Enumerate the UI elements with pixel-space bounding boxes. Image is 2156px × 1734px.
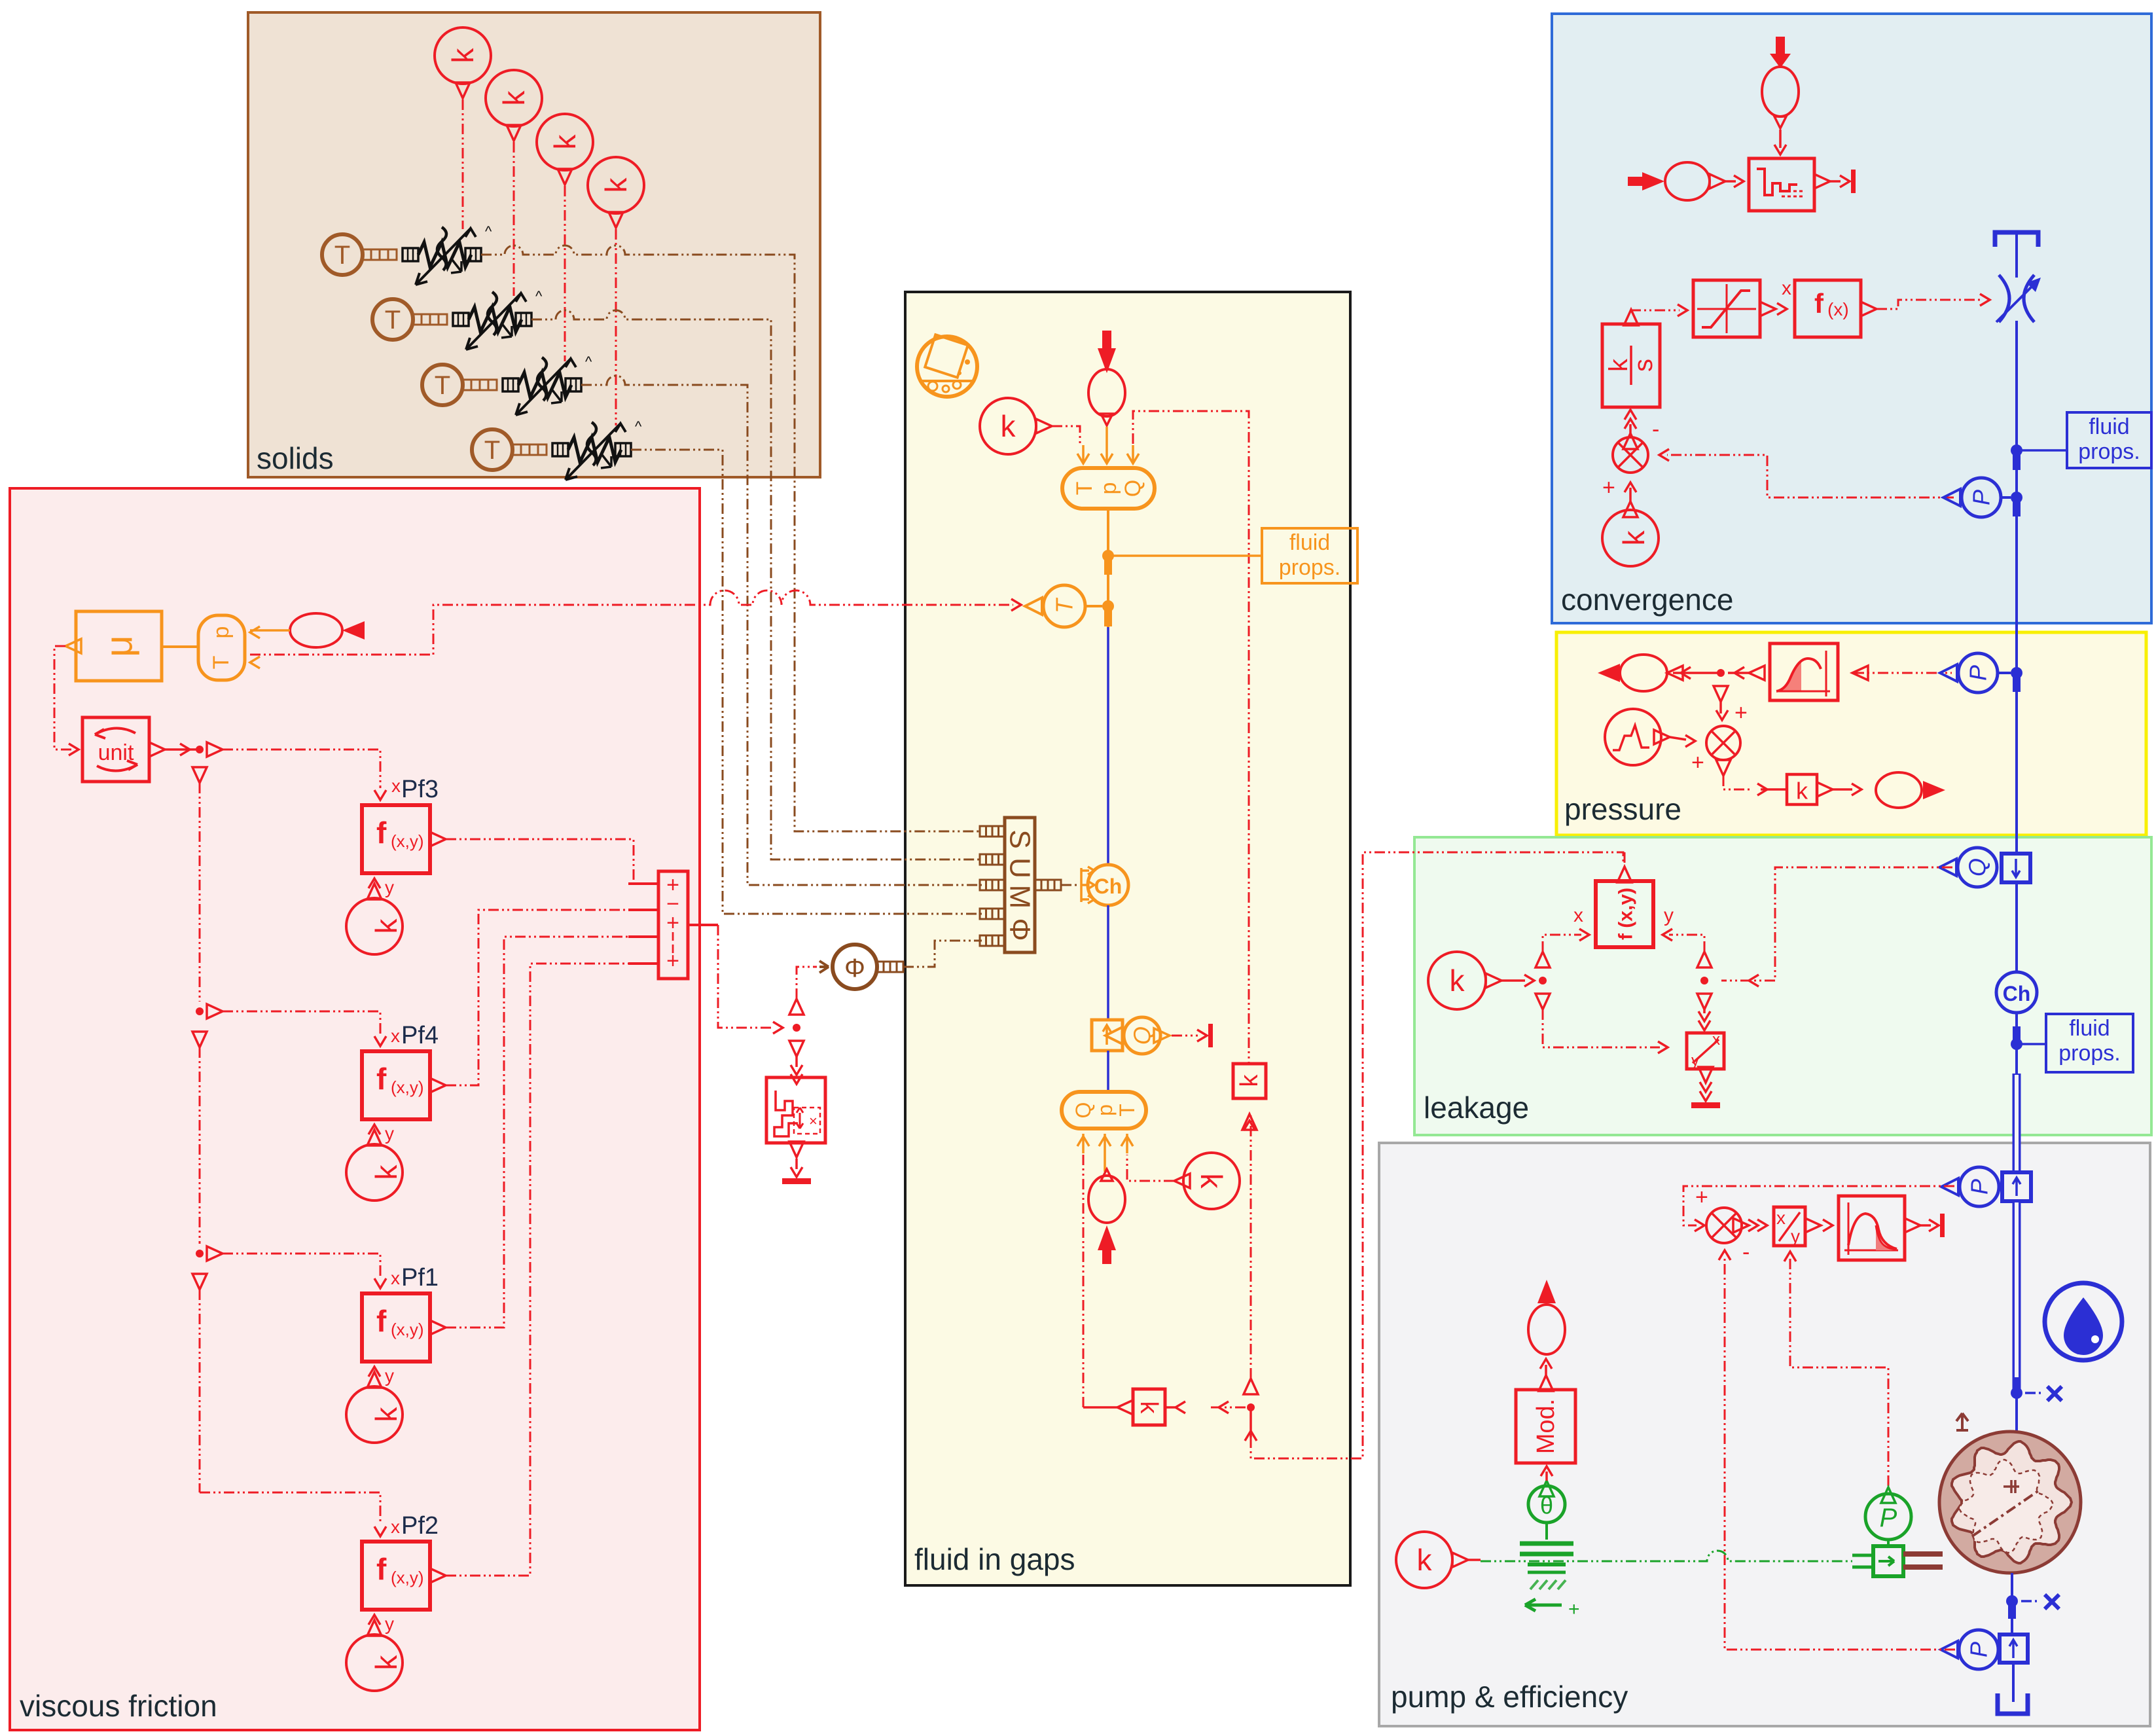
gain square k (vertical) [1233, 1064, 1266, 1130]
svg-text:x: x [1573, 905, 1583, 926]
thermal resistor R1 [403, 223, 492, 285]
svg-text:convergence: convergence [1561, 583, 1733, 617]
blue thermal-fluid line down to Ch [1107, 627, 1109, 865]
wire R1 output to SUM input 1 [481, 245, 982, 831]
svg-text:k: k [1417, 1543, 1433, 1577]
pressure source ellipse bottom [1088, 1169, 1125, 1264]
svg-text:Ch: Ch [1094, 875, 1123, 898]
wire k4 to thermal resistor R4 [615, 229, 617, 425]
signal output ellipse (pressure right) [1876, 772, 1945, 808]
svg-text:k: k [1195, 1174, 1229, 1189]
svg-text:-: - [1742, 1240, 1750, 1265]
constant k (fluid in gaps top) [980, 398, 1036, 454]
svg-text:x: x [391, 1026, 400, 1046]
region box: viscous friction [10, 488, 700, 1730]
svg-text:T: T [1072, 482, 1097, 496]
svg-text:(x,y): (x,y) [391, 1568, 424, 1587]
svg-text:P: P [1965, 665, 1992, 681]
constant source k4 (solids) [588, 157, 644, 213]
svg-text:props.: props. [2078, 439, 2140, 464]
orifice box with up arrow (orange) [1092, 1020, 1123, 1051]
wire Phi to SUM input 5 [903, 941, 982, 967]
svg-text:(x): (x) [1827, 299, 1849, 319]
svg-text:Pf2: Pf2 [401, 1512, 439, 1540]
variable orifice (convergence) [1996, 275, 2041, 322]
pressure sensor P (convergence) [1943, 478, 2001, 517]
signal sink ellipse top (convergence) [1762, 37, 1799, 154]
svg-text:T: T [209, 656, 234, 670]
wire saturation to f(x) [1777, 278, 1791, 315]
svg-text:k: k [1001, 409, 1016, 443]
svg-text:^: ^ [585, 353, 592, 370]
wire junction up to Phi source [797, 967, 817, 999]
svg-text:x: x [391, 776, 401, 796]
wire distribution to terminator (pump) [1920, 1214, 1945, 1237]
svg-text:P: P [1966, 1642, 1992, 1657]
svg-text:f: f [1814, 288, 1824, 319]
wire distribution to ellipse with tee [1673, 666, 1765, 702]
constant source k3 (solids) [537, 114, 593, 170]
wire k to Pf3 y input [367, 877, 394, 899]
wire division to ground (leakage) [1691, 1082, 1720, 1108]
junction T sensor [1085, 600, 1114, 626]
signal generator circle (pressure) [1605, 709, 1670, 765]
wire junction down to step box [791, 1057, 802, 1084]
label: solids [257, 441, 334, 475]
wire k to Pf2 y input [367, 1614, 394, 1636]
svg-text:k: k [548, 134, 582, 150]
label: fluid in gaps [914, 1542, 1075, 1576]
svg-text:T: T [385, 306, 401, 334]
integrator k/s box [1602, 310, 1660, 407]
svg-text:fluid: fluid [1289, 530, 1330, 555]
svg-text:Q: Q [1071, 1102, 1095, 1119]
svg-text:+: + [666, 948, 679, 973]
wire unit output junction tee [165, 742, 223, 783]
wire x/y bottom input from green P sensor [1784, 1252, 1888, 1486]
angle sensor theta (green) [1528, 1481, 1565, 1540]
tank top (convergence) [1995, 232, 2038, 278]
gain circle k of Pf2 [346, 1635, 403, 1691]
tag of k1 [456, 82, 470, 98]
wire junction chain down 3 [199, 1290, 201, 1492]
svg-text:props.: props. [1279, 555, 1341, 580]
svg-text:Ch: Ch [2003, 982, 2031, 1005]
region box: convergence [1552, 14, 2151, 623]
svg-text:y: y [385, 1614, 394, 1634]
svg-text:+: + [1691, 750, 1704, 775]
svg-text:T: T [1115, 1104, 1139, 1117]
wire k square output left [1083, 1406, 1117, 1409]
svg-text:x: x [1776, 1208, 1786, 1228]
junction P conv [2001, 492, 2022, 516]
region box: solids [248, 12, 820, 477]
region box: leakage [1414, 837, 2151, 1135]
blue line Ch to orifice [1107, 905, 1109, 1020]
function block Pf1 f(x,y) [362, 1264, 446, 1362]
svg-text:P: P [1966, 1179, 1993, 1195]
signal sink ellipse (pressure left) [1598, 655, 1683, 691]
arrows into pill2 bottom [1077, 1134, 1133, 1172]
svg-text:k: k [1796, 778, 1808, 804]
svg-text:leakage: leakage [1424, 1091, 1529, 1125]
svg-text:k: k [497, 90, 531, 106]
wire P sensor to multiplier input [1659, 449, 1954, 497]
multiplier circle (convergence) [1602, 410, 1659, 500]
sensor T (fluid in gaps) [1025, 585, 1085, 627]
pressure sensor P + port (pump top) [1941, 1167, 2031, 1206]
thermal resistor R4 [552, 418, 642, 480]
thermal resistor R2 [453, 288, 543, 350]
svg-text:Pf3: Pf3 [401, 776, 439, 803]
svg-text:k: k [369, 1165, 403, 1180]
junction + fluid props (convergence) [2011, 444, 2067, 470]
svg-text:Q: Q [1129, 1026, 1156, 1045]
pressure sensor P (pressure box) [1940, 653, 1998, 693]
wire P sensor to distribution box [1854, 672, 1952, 674]
thermal resistor R3 [503, 353, 592, 415]
svg-text:P: P [1968, 490, 1995, 505]
pressure sensor P + port (pump bottom) [1941, 1630, 2028, 1669]
svg-text:+: + [1602, 475, 1615, 500]
signal source ellipse left (convergence) [1628, 162, 1725, 200]
division x/y box (pump) [1774, 1207, 1821, 1246]
constant k (pump) [1396, 1532, 1452, 1588]
svg-text:p: p [209, 626, 234, 639]
wire y input from junction2 [1662, 905, 1704, 952]
wire summer output to junction [718, 925, 804, 1057]
function block Pf2 f(x,y) [362, 1512, 446, 1610]
SUM Phi block [980, 818, 1036, 952]
unit converter block [82, 717, 165, 782]
flow sensor Q (fluid in gaps) [1105, 1017, 1160, 1054]
wire R3 output to SUM input 3 [581, 376, 982, 885]
property pill QpT (bottom) [1062, 1092, 1146, 1129]
svg-text:^: ^ [635, 418, 642, 435]
svg-text:μ: μ [98, 635, 141, 657]
svg-text:p: p [1093, 1104, 1117, 1116]
thermal node Ch (leakage) [1996, 972, 2037, 1013]
wire Pf2 output to summer input 4 [446, 964, 628, 1576]
viscosity block mu [65, 611, 162, 681]
blue line junction to bottom sensor [2011, 1601, 2013, 1635]
svg-text:k: k [1617, 530, 1651, 546]
heat exchange node Ch (orange) [1088, 865, 1128, 905]
svg-text:x: x [391, 1517, 400, 1537]
wire P top to multiplier + input [1683, 1186, 1954, 1231]
wire Pf1 output to summer input 3 [446, 937, 628, 1328]
wire f(x) to variable orifice [1877, 294, 1990, 309]
gain k box (pressure) [1787, 774, 1833, 804]
multiplier circle (pump efficiency) [1695, 1185, 1750, 1265]
oil droplet icon [2045, 1283, 2122, 1360]
svg-text:f: f [376, 1304, 387, 1338]
fluid props box (convergence) [2067, 412, 2151, 468]
tag of k4 [609, 212, 623, 228]
svg-text:x: x [391, 1268, 400, 1288]
blue line through pressure box [2015, 673, 2018, 854]
property pill QpT (top) [1062, 468, 1155, 509]
svg-text:+: + [1695, 1185, 1708, 1210]
svg-text:p: p [1096, 482, 1121, 495]
wire multiplier to x/y box [1748, 1219, 1767, 1231]
tank bottom (pump) [1998, 1663, 2028, 1714]
constant k (fluid bottom) [1183, 1153, 1240, 1209]
tag of k2 [507, 125, 521, 141]
svg-text:y: y [385, 1365, 394, 1386]
svg-text:k: k [599, 177, 633, 193]
svg-text:M: M [1004, 885, 1036, 909]
wire to Pf3 x input [223, 750, 401, 800]
distribution box (pump) [1839, 1196, 1920, 1260]
pressure source ellipse top (fluid in gaps) [1088, 331, 1125, 425]
svg-text:k: k [446, 48, 480, 63]
orange arrows into QpT pill [1077, 427, 1139, 463]
wire step box to ground [782, 1142, 811, 1184]
svg-text:k: k [369, 918, 403, 934]
wire k to Pf4 y input [367, 1123, 394, 1146]
svg-text:Q: Q [1121, 480, 1145, 497]
svg-text:f: f [376, 816, 387, 850]
signal ellipse above Mod [1528, 1280, 1565, 1354]
wire k to output ellipse (pressure) [1833, 784, 1861, 795]
wire k/s to saturation [1631, 304, 1687, 316]
signal shaping step box [766, 1077, 825, 1143]
junction bottom right (fluid) [1244, 1379, 1258, 1441]
wire k3 to thermal resistor R3 [564, 186, 566, 361]
stair signal box (convergence) [1749, 158, 1830, 211]
double pipe leakage to pump box [2013, 1074, 2021, 1174]
wire stair box to terminator [1830, 170, 1856, 193]
constant source k2 (solids) [486, 70, 542, 126]
svg-text:pump & efficiency: pump & efficiency [1391, 1680, 1628, 1714]
wire k to multiplier [1623, 482, 1638, 517]
svg-text:y: y [385, 1123, 394, 1144]
junction with plug x (pump top) [2011, 1377, 2062, 1401]
wire junction down and right to leakage [1251, 852, 1623, 1458]
gain circle k of Pf4 [346, 1144, 403, 1201]
svg-text:k: k [1236, 1074, 1263, 1087]
blue line pump bottom to junction [2011, 1573, 2013, 1600]
wire R4 output to SUM input 4 [631, 450, 982, 914]
wire junction1 down to division box [1543, 1009, 1668, 1053]
temperature source T2 [372, 299, 447, 340]
wire junction to k square input [1165, 1401, 1247, 1413]
constant k (leakage) [1428, 952, 1486, 1009]
wire Q sensor to junction 2 (leakage) [1721, 867, 1952, 986]
svg-text:f (x,y): f (x,y) [1615, 888, 1637, 940]
distribution function box (pressure) [1770, 643, 1868, 700]
wire junction chain down [192, 783, 223, 1047]
blue line orifice to pill2 [1107, 1051, 1109, 1092]
label: leakage [1424, 1091, 1529, 1125]
svg-text:f: f [376, 1552, 387, 1586]
svg-text:(x,y): (x,y) [391, 1320, 424, 1339]
multiplier circle (pressure) [1706, 726, 1740, 776]
wire leakage f top to incoming long line [1624, 852, 1626, 867]
svg-text:^: ^ [485, 223, 492, 240]
svg-text:x: x [1782, 278, 1791, 299]
blue line junction to pump [2015, 1393, 2018, 1434]
svg-text:y: y [1791, 1226, 1800, 1246]
orange line pill down / junction to fluid props [1102, 509, 1262, 627]
svg-text:×: × [809, 1113, 817, 1129]
label: viscous friction [20, 1689, 217, 1723]
rotary load to ground (green) [1520, 1544, 1580, 1620]
svg-text:-: - [1652, 417, 1659, 442]
svg-text:(x,y): (x,y) [391, 831, 424, 851]
gain square k (horizontal) [1117, 1389, 1165, 1425]
svg-text:(x,y): (x,y) [391, 1077, 424, 1097]
summer block [628, 871, 718, 979]
svg-text:Φ: Φ [844, 954, 865, 983]
flow source Phi [819, 945, 903, 989]
region box: fluid in gaps [905, 292, 1350, 1585]
label: convergence [1561, 583, 1733, 617]
svg-text:viscous friction: viscous friction [20, 1689, 217, 1723]
svg-text:k: k [369, 1407, 403, 1422]
temperature source T4 [472, 429, 547, 470]
wire signal gen to multiplier [1670, 735, 1704, 775]
fluid props box (leakage) [2046, 1014, 2133, 1072]
wire Mod to output ellipse [1540, 1359, 1552, 1375]
svg-text:y: y [1664, 905, 1674, 926]
wire x/y to distribution box (pump) [1823, 1219, 1833, 1231]
wire Pf3 output to summer input 1 [446, 839, 634, 884]
wire tee down to multiplier (pressure) [1716, 700, 1748, 725]
tag of k3 [558, 169, 572, 185]
wire Pf4 output to summer input 2 [446, 910, 628, 1085]
svg-text:x: x [1712, 1031, 1720, 1049]
wire k to pill2 right input [1127, 1155, 1190, 1188]
wire Q sensor to terminator [1154, 1024, 1213, 1047]
svg-text:k: k [1450, 964, 1465, 998]
svg-text:solids: solids [257, 441, 334, 475]
wire into step/stair box [1725, 175, 1744, 187]
svg-text:+: + [1734, 700, 1748, 725]
svg-text:k: k [369, 1655, 403, 1671]
svg-text:props.: props. [2058, 1041, 2121, 1066]
svg-text:f: f [376, 1062, 387, 1096]
pT property pill [162, 615, 260, 680]
wire k to Pf1 y input [367, 1365, 394, 1388]
svg-text:S: S [1004, 829, 1036, 848]
svg-text:T: T [334, 241, 350, 270]
svg-text:Q: Q [1964, 858, 1991, 876]
wire multiplier to k gain (pressure) [1723, 776, 1787, 795]
saturation box [1693, 280, 1776, 337]
wire to Pf4 x input [223, 1011, 400, 1046]
wire junction2 down to division box [1698, 1009, 1710, 1030]
wire from right k-square chain to pill right input [1133, 411, 1249, 1064]
double pipe sensor to pump junction [2013, 1201, 2021, 1393]
blue line into Ch (leakage) [2015, 882, 2018, 972]
wire k to junction1 (leakage) [1486, 952, 1550, 1009]
svg-text:fluid in gaps: fluid in gaps [914, 1542, 1075, 1576]
junction with plug x (pump bottom) [2006, 1595, 2059, 1619]
function f(x) box [1795, 280, 1877, 337]
division box x/y (leakage) [1687, 1031, 1724, 1083]
wire theta to Mod box [1541, 1466, 1553, 1481]
svg-text:k: k [1135, 1401, 1162, 1415]
constant k (convergence) [1602, 510, 1659, 566]
constant source k1 (solids) [435, 27, 491, 84]
wire junction up to k square vertical [1244, 1114, 1255, 1379]
gain circle k of Pf3 [346, 898, 403, 954]
label: pump & efficiency [1391, 1680, 1628, 1714]
wire k1 to thermal resistor R1 [462, 99, 464, 229]
wire pill2 left input chain down [1083, 1155, 1085, 1407]
pressure sensor P (green) [1865, 1487, 1911, 1546]
fluid-in-gaps icon (cup with bubbles) [917, 334, 977, 397]
region box: pump & efficiency [1379, 1143, 2150, 1726]
fluid props box (fluid in gaps) [1262, 528, 1357, 583]
wire junction1 up to f(x,y) x input [1543, 905, 1589, 952]
flow sensor Q with port box (leakage) [1939, 848, 2030, 887]
svg-text:Pf1: Pf1 [401, 1264, 439, 1291]
signal ellipse (viscosity output) [250, 613, 365, 647]
svg-text:T: T [435, 371, 450, 400]
wire R2 output to SUM input 2 [531, 310, 982, 859]
prime mover box (green) with shaft [1852, 1546, 1943, 1576]
svg-text:T: T [1051, 597, 1078, 613]
Mod block (pump) [1516, 1375, 1575, 1463]
temperature source T3 [422, 365, 497, 405]
wire k to pill input [1036, 419, 1080, 444]
svg-text:fluid: fluid [2069, 1016, 2110, 1041]
svg-text:T: T [484, 436, 500, 465]
svg-text:Φ: Φ [1004, 918, 1036, 941]
region box: pressure [1556, 632, 2146, 835]
svg-text:+: + [1568, 1599, 1580, 1620]
junction + fluid props (leakage) [2011, 1013, 2046, 1074]
svg-text:fluid: fluid [2089, 414, 2129, 439]
wire junction chain down 2 [192, 1047, 223, 1290]
svg-text:y: y [385, 877, 394, 897]
function block Pf3 f(x,y) [362, 776, 446, 873]
gerotor pump [1939, 1413, 2081, 1573]
junction P pressure [1998, 667, 2022, 692]
svg-text:pressure: pressure [1564, 792, 1681, 826]
wire mu to unit converter [54, 646, 79, 755]
svg-text:Pf4: Pf4 [401, 1022, 439, 1049]
wire P bottom to multiplier - input [1719, 1250, 1955, 1650]
svg-text:Mod.: Mod. [1532, 1399, 1560, 1454]
blue hydraulic line convergence [2015, 321, 2018, 673]
temperature source T1 [322, 234, 397, 275]
exchange port into Ch from SUM [1035, 867, 1094, 903]
wire to Pf1 x input [223, 1254, 400, 1288]
function block Pf4 f(x,y) [362, 1022, 446, 1119]
wire k2 to thermal resistor R2 [513, 142, 515, 296]
junction2 (leakage) [1697, 952, 1712, 1009]
wire T property line from pT pill to T sensor (long) [250, 590, 1021, 655]
svg-text:P: P [1880, 1504, 1897, 1532]
wire k to shaft (green dash) [1452, 1551, 1852, 1567]
svg-text:U: U [1004, 858, 1036, 878]
gain circle k of Pf1 [346, 1386, 403, 1443]
label: pressure [1564, 792, 1681, 826]
svg-text:s: s [1629, 359, 1658, 372]
function f(x,y) block (leakage) [1596, 867, 1653, 947]
wire to Pf2 x input [200, 1492, 400, 1537]
svg-text:^: ^ [535, 288, 543, 304]
